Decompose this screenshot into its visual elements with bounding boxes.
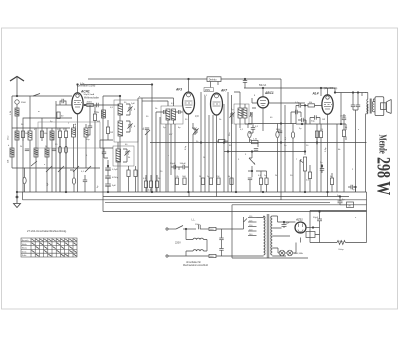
wire c15 bbox=[244, 79, 246, 88]
HT top wire right bbox=[244, 87, 335, 89]
wire c21 bbox=[310, 118, 320, 125]
IF3 box bbox=[161, 106, 183, 124]
node c30 bbox=[339, 196, 341, 198]
resistor R31 oval bbox=[72, 178, 75, 184]
wire speaker bottom bbox=[373, 99, 375, 102]
transformer T1 core bbox=[266, 214, 268, 258]
wire field coil bbox=[340, 204, 347, 206]
wire c16 bbox=[249, 124, 253, 133]
resistor R4 bbox=[64, 131, 67, 138]
capacitor C29 bbox=[317, 219, 322, 221]
coil L3 bbox=[28, 131, 32, 140]
svg-text:c: c bbox=[168, 155, 169, 157]
wire c31 bbox=[321, 164, 323, 173]
wire c29 bbox=[319, 212, 321, 243]
capacitor C33 bbox=[102, 152, 106, 154]
resistor R13 bbox=[144, 181, 147, 188]
capacitor C36 bbox=[302, 118, 304, 122]
wire det cols bbox=[236, 108, 256, 192]
resistor R9 bbox=[201, 178, 204, 185]
capacitor C10 bbox=[164, 110, 166, 114]
loudspeaker LS bbox=[373, 97, 391, 116]
wire extra vertical bbox=[336, 124, 338, 192]
svg-text:30µF: 30µF bbox=[313, 217, 319, 219]
switch S3 bbox=[58, 166, 64, 172]
output top wire bbox=[335, 92, 366, 94]
heater bus wire 3 bbox=[105, 201, 330, 203]
svg-text:50k hA: 50k hA bbox=[259, 84, 267, 87]
svg-text:0,3µ: 0,3µ bbox=[325, 147, 327, 152]
capacitor C11 bbox=[179, 110, 181, 114]
bypass capacitor C7 bbox=[105, 168, 111, 170]
wire heater stub1 bbox=[78, 192, 328, 200]
resistor R21 oval bbox=[291, 132, 294, 138]
svg-text:0,1µF: 0,1µF bbox=[112, 169, 118, 171]
table cell marks bbox=[32, 239, 77, 256]
svg-text:m: m bbox=[38, 111, 40, 113]
wire 64col bbox=[64, 101, 66, 105]
tube V4 ABC1 bbox=[257, 97, 268, 108]
coil L16 bbox=[72, 124, 89, 192]
tube V3 AF7 bbox=[211, 93, 223, 115]
capacitor C19 bbox=[278, 131, 282, 133]
mains pin bottom bbox=[166, 255, 168, 257]
wire pot col bbox=[248, 151, 252, 177]
svg-text:27-Volt-Umschalter/Drahtverbin: 27-Volt-Umschalter/Drahtverbindg. bbox=[27, 229, 67, 233]
svg-text:15000: 15000 bbox=[340, 116, 347, 118]
output transformer T2 bbox=[367, 99, 373, 114]
node c15 bbox=[244, 78, 246, 80]
top bus wire left bbox=[80, 84, 152, 86]
IF1 box bbox=[114, 100, 138, 142]
svg-text:Mende: Mende bbox=[377, 135, 389, 154]
wire c6 bbox=[146, 130, 148, 192]
trimmer CT4 bbox=[193, 128, 198, 133]
tap 150 bbox=[248, 226, 257, 228]
capacitor C23 tone bbox=[351, 105, 355, 107]
resistor R12 bbox=[230, 178, 233, 185]
svg-text:Urlsp: Urlsp bbox=[339, 248, 345, 251]
wire right col bbox=[346, 93, 362, 141]
wire mains bottom bbox=[168, 255, 209, 257]
capacitor C18 bbox=[248, 178, 252, 180]
fuse F1 bbox=[209, 227, 216, 230]
arrester G1 bbox=[15, 100, 19, 104]
wire sec taps bbox=[272, 228, 290, 256]
wire r3r4 bbox=[56, 128, 70, 192]
wire c35 bbox=[291, 112, 301, 124]
node c32 bbox=[355, 186, 357, 188]
resistor R3 bbox=[58, 131, 61, 138]
svg-text:298 W: 298 W bbox=[373, 157, 395, 196]
svg-text:150µ: 150µ bbox=[195, 224, 201, 226]
node top joints bbox=[119, 95, 121, 97]
switch S6 bbox=[31, 161, 37, 166]
switch S4 bbox=[145, 130, 150, 135]
transformer T1 primary bbox=[264, 216, 266, 255]
resistor R20 oval bbox=[276, 131, 279, 137]
svg-text:5x12: 5x12 bbox=[192, 128, 198, 130]
node screen bbox=[340, 123, 342, 125]
resistor R10 bbox=[209, 178, 212, 185]
power block frame bbox=[232, 205, 308, 258]
node antenna junction bbox=[16, 95, 18, 97]
resistor R36 oval bbox=[58, 146, 61, 153]
node k bbox=[301, 123, 303, 125]
svg-text:AF7: AF7 bbox=[220, 89, 227, 93]
svg-text:AL4: AL4 bbox=[312, 92, 319, 96]
coil L8 bbox=[118, 121, 123, 136]
capacitor C31 bbox=[320, 169, 324, 171]
resistor R35 bbox=[57, 112, 68, 192]
wire row2 bbox=[23, 118, 72, 141]
wire cv1 bbox=[151, 85, 153, 193]
wire band verticals bbox=[23, 96, 52, 192]
wire r34 bbox=[135, 166, 137, 192]
wire c33 bbox=[104, 148, 108, 158]
wire drehko drop bbox=[211, 82, 219, 88]
svg-text:150µF: 150µF bbox=[180, 163, 187, 165]
wire V1 cathode bbox=[77, 114, 79, 192]
choke CH2 bbox=[193, 250, 204, 251]
node plate bbox=[84, 104, 86, 106]
capacitor C4 bbox=[97, 103, 99, 107]
svg-text:4,5mA: 4,5mA bbox=[74, 123, 77, 130]
resistor R19 bbox=[265, 178, 268, 185]
resistor R23 bbox=[308, 104, 315, 107]
node c31 bbox=[321, 165, 323, 167]
svg-text:Kreis: Kreis bbox=[22, 251, 27, 253]
aux bus wire bbox=[103, 211, 367, 213]
wire if3 bbox=[154, 98, 183, 192]
wire r29 bbox=[331, 173, 333, 192]
svg-text:2x0,35A: 2x0,35A bbox=[295, 252, 304, 255]
capacitor C15 top bbox=[243, 81, 247, 83]
wire det grid bbox=[252, 98, 258, 103]
wire c28 bbox=[283, 222, 285, 228]
bypass capacitor C8 bbox=[105, 176, 111, 178]
wire c5 bbox=[86, 105, 90, 135]
wire 60col bbox=[60, 101, 62, 105]
capacitor C3 bbox=[62, 99, 64, 103]
resistor R32 bbox=[106, 127, 109, 134]
choke CH3 bbox=[306, 232, 315, 238]
wire r24 r25 bbox=[317, 128, 321, 192]
switch S7 bbox=[73, 166, 79, 172]
wire if2low bbox=[100, 140, 127, 192]
tap 220 bbox=[248, 230, 257, 232]
scattered tiny value labels bbox=[8, 95, 360, 219]
svg-text:Welle: Welle bbox=[22, 244, 28, 246]
coil L13 bbox=[243, 108, 247, 118]
wire selector to primary bbox=[257, 216, 264, 218]
svg-text:0,1µ: 0,1µ bbox=[295, 102, 300, 104]
switch S8 bbox=[85, 166, 91, 172]
resistor R27 zigzag bbox=[337, 241, 345, 245]
capacitor C24 tone bbox=[356, 105, 360, 107]
wire bus drop bbox=[22, 192, 24, 200]
svg-text:Drehko: Drehko bbox=[209, 78, 217, 81]
trimmer CT3 bbox=[124, 150, 129, 155]
heater bus wire 1 bbox=[103, 196, 349, 198]
resistor R26 bbox=[342, 130, 345, 137]
node c29 bbox=[319, 211, 321, 213]
capacitor C5 bbox=[88, 126, 92, 128]
transformer T1 secondary bbox=[271, 216, 273, 255]
choke CH1 bbox=[193, 238, 204, 239]
variable capacitor CV1 bbox=[151, 84, 153, 86]
coil L2 bbox=[15, 131, 19, 140]
table columns bbox=[31, 238, 73, 257]
svg-text:1M: 1M bbox=[216, 176, 219, 178]
wire V1 grid bbox=[56, 104, 72, 106]
resistor R25 bbox=[319, 131, 322, 138]
svg-text:400Ω: 400Ω bbox=[87, 101, 93, 103]
svg-text:50µ/4,5mA: 50µ/4,5mA bbox=[84, 93, 95, 96]
IF transformer 4 box bbox=[234, 104, 249, 124]
wire mains bottom2 bbox=[216, 255, 264, 257]
coil L4 bbox=[34, 148, 38, 157]
capacitor C12 bbox=[174, 165, 176, 169]
wire r row stubs bbox=[146, 175, 157, 192]
Drehko frame bbox=[207, 77, 221, 82]
wire volume col bbox=[304, 105, 306, 155]
resistor R15 bbox=[155, 181, 158, 188]
wire speaker top bbox=[321, 88, 368, 192]
capacitor C20 bbox=[299, 103, 301, 107]
wire mains top3 bbox=[200, 228, 209, 230]
svg-text:0,1µ: 0,1µ bbox=[80, 83, 85, 85]
svg-text:1W: 1W bbox=[322, 119, 325, 121]
wire caps mains bbox=[221, 229, 223, 256]
resistor R29 bbox=[330, 178, 333, 185]
capacitor C17 bbox=[254, 149, 258, 151]
resistor R11 bbox=[217, 178, 220, 185]
svg-text:ACH1: ACH1 bbox=[80, 90, 90, 94]
resistor R33 bbox=[127, 170, 130, 177]
svg-text:4µF: 4µF bbox=[286, 222, 290, 224]
screen supply wire bbox=[150, 142, 367, 144]
wire r36 r37 bbox=[60, 138, 66, 193]
tap 125 bbox=[248, 221, 257, 223]
wire r30 bbox=[24, 168, 26, 192]
svg-text:25az: 25az bbox=[8, 135, 10, 140]
wire caps column bbox=[107, 160, 109, 192]
wire transformer sec down bbox=[367, 105, 369, 114]
wire c12 c13 bbox=[171, 167, 189, 170]
wire bottom right bus bbox=[310, 242, 337, 244]
wire mains top4 bbox=[216, 228, 244, 230]
capacitor C34 bbox=[83, 180, 87, 182]
resistor R18 bbox=[259, 178, 262, 185]
coil L17 bbox=[84, 128, 88, 137]
potentiometer P2 volume bbox=[303, 157, 306, 171]
wire v3 cols bbox=[201, 92, 232, 192]
node az1 out bbox=[312, 227, 314, 229]
switch S1 bbox=[33, 94, 40, 97]
svg-text:AF3: AF3 bbox=[175, 88, 182, 92]
svg-text:ABC1: ABC1 bbox=[264, 91, 274, 95]
wire v2 col bbox=[156, 79, 189, 192]
wire r6 bbox=[94, 105, 96, 192]
wire antenna column bbox=[16, 104, 18, 192]
resistor R2 bbox=[40, 131, 43, 138]
resistor R34 bbox=[134, 170, 137, 177]
wire lamps bbox=[278, 243, 296, 254]
coil L11 bbox=[172, 109, 176, 120]
capacitor C13 bbox=[183, 165, 185, 169]
svg-text:5µF: 5µF bbox=[112, 185, 116, 187]
svg-text:280V: 280V bbox=[205, 90, 211, 92]
wire c18 bbox=[249, 180, 251, 192]
wire c30 bbox=[339, 197, 341, 205]
node v1 top bbox=[77, 84, 79, 86]
node out top bbox=[334, 92, 336, 94]
svg-text:3,0: 3,0 bbox=[195, 114, 199, 118]
trimmer CT5 bbox=[229, 112, 234, 117]
AVC wire segment bbox=[224, 151, 306, 153]
wire r22 bbox=[309, 165, 311, 192]
node pot bbox=[251, 170, 253, 172]
coil L15 bbox=[102, 110, 106, 118]
tube V5 AL4 bbox=[322, 95, 333, 115]
wire top feed bbox=[103, 96, 120, 212]
wire c22 bbox=[343, 114, 345, 130]
wire c3 bbox=[55, 101, 57, 192]
switch S5 mains bbox=[176, 226, 183, 230]
table rows bbox=[21, 242, 77, 253]
switch S2 bbox=[46, 166, 52, 172]
coil L6 bbox=[10, 148, 14, 157]
resistor R22 bbox=[308, 172, 311, 179]
capacitor C21 bbox=[315, 115, 317, 119]
rectifier tube AZ1 bbox=[295, 222, 306, 233]
coil L1 bbox=[15, 108, 19, 116]
svg-text:50µF: 50µF bbox=[170, 163, 176, 165]
wire row2b bbox=[41, 118, 43, 141]
trimmer CT2 bbox=[127, 123, 132, 128]
wire r32 bbox=[107, 120, 109, 140]
wire r18 r19 bbox=[256, 171, 267, 192]
resistor R24 bbox=[315, 131, 318, 138]
wire right riser bbox=[366, 192, 368, 243]
node al4 grid bbox=[304, 105, 306, 107]
svg-text:AZ11: AZ11 bbox=[295, 218, 303, 222]
coil L7 bbox=[118, 104, 123, 115]
wire avc row bbox=[248, 79, 296, 192]
resistor R14 bbox=[149, 181, 152, 188]
wire if1 bbox=[120, 96, 130, 192]
node caps bbox=[107, 165, 109, 167]
wire antenna row bbox=[12, 95, 72, 97]
capacitor C25 bbox=[199, 225, 201, 229]
tube V2 AF3 bbox=[183, 92, 195, 114]
wire choke links bbox=[186, 229, 207, 256]
wire r16 bbox=[249, 138, 251, 140]
capacitor C27 bbox=[219, 249, 223, 251]
svg-text:2W: 2W bbox=[110, 132, 113, 134]
svg-text:220V: 220V bbox=[175, 242, 181, 245]
wire mains top2 bbox=[183, 228, 196, 230]
table frame bbox=[21, 238, 77, 257]
bypass capacitor C9 bbox=[105, 184, 111, 186]
coil L5 bbox=[45, 148, 49, 157]
node sw bbox=[185, 228, 187, 230]
rotated labels left margin bbox=[8, 127, 287, 188]
wire al4 cathode bbox=[327, 114, 329, 192]
wire fb top bbox=[138, 97, 154, 99]
capacitor C1 bbox=[25, 149, 29, 151]
svg-text:5000: 5000 bbox=[276, 129, 282, 131]
wire tone bbox=[353, 93, 358, 193]
wire after zigzag bbox=[346, 242, 367, 244]
capacitor C2 bbox=[52, 149, 56, 151]
wire long feedback 2 bbox=[141, 98, 143, 192]
svg-text:4700µ: 4700µ bbox=[112, 177, 119, 179]
capacitor C14 bbox=[251, 112, 253, 116]
resistor R5 bbox=[87, 103, 94, 106]
wire p2 bbox=[300, 160, 305, 192]
resistor R17 bbox=[252, 141, 259, 144]
capacitor C30 bbox=[338, 201, 343, 203]
capacitor C22 bbox=[342, 118, 346, 120]
capacitor C16 bbox=[251, 128, 255, 130]
trimmer CT1 bbox=[127, 106, 132, 111]
wire v2 grid bbox=[181, 103, 183, 112]
potentiometer P1 bbox=[249, 158, 255, 165]
wire ct4 bbox=[193, 123, 196, 192]
ground bus wire bbox=[17, 191, 367, 193]
capacitor C26 bbox=[219, 238, 223, 240]
capacitor C35 bbox=[291, 110, 306, 124]
antenna bbox=[10, 77, 24, 97]
resistor R28 bbox=[218, 140, 225, 143]
wire r31 bbox=[70, 170, 74, 192]
wire l16 l17 bbox=[74, 124, 87, 168]
resistor R16 oval bbox=[248, 131, 251, 137]
wire if4 bbox=[232, 92, 252, 124]
fuse F2 bbox=[209, 254, 216, 257]
svg-text:Bereich: Bereich bbox=[22, 240, 29, 242]
wire r33 bbox=[128, 166, 130, 192]
tube V1 ACH1 bbox=[72, 93, 83, 114]
svg-text:Wellenschalter: Wellenschalter bbox=[84, 97, 99, 100]
wire bias row bbox=[296, 124, 346, 192]
resistor R7 bbox=[175, 178, 178, 185]
pilot lamp LP2 bbox=[287, 250, 293, 256]
wire long feedback 1 bbox=[137, 98, 139, 192]
band box outline bbox=[38, 122, 100, 148]
capacitor C6 bbox=[145, 128, 149, 130]
mains pin top bbox=[166, 228, 168, 230]
svg-text:(Drehstrom 0,5W): (Drehstrom 0,5W) bbox=[77, 85, 95, 88]
svg-text:L.L.: L.L. bbox=[192, 220, 196, 222]
wire r17 bbox=[250, 140, 259, 147]
tap 240 bbox=[248, 235, 257, 237]
node bus joints bbox=[107, 191, 109, 193]
wire det plate bbox=[263, 88, 305, 131]
wire r26 bbox=[343, 137, 345, 193]
wire al4 plate top bbox=[321, 88, 328, 96]
coil L9 bbox=[116, 149, 121, 162]
heater bus wire 2 bbox=[23, 199, 367, 201]
IF transformer 2 low box bbox=[113, 146, 134, 166]
resistor R37 oval bbox=[64, 146, 67, 153]
svg-text:Umschalter für: Umschalter für bbox=[186, 261, 201, 264]
svg-text:M: M bbox=[349, 204, 351, 207]
capacitor C32 bbox=[351, 185, 353, 189]
label 280V bbox=[204, 88, 213, 92]
